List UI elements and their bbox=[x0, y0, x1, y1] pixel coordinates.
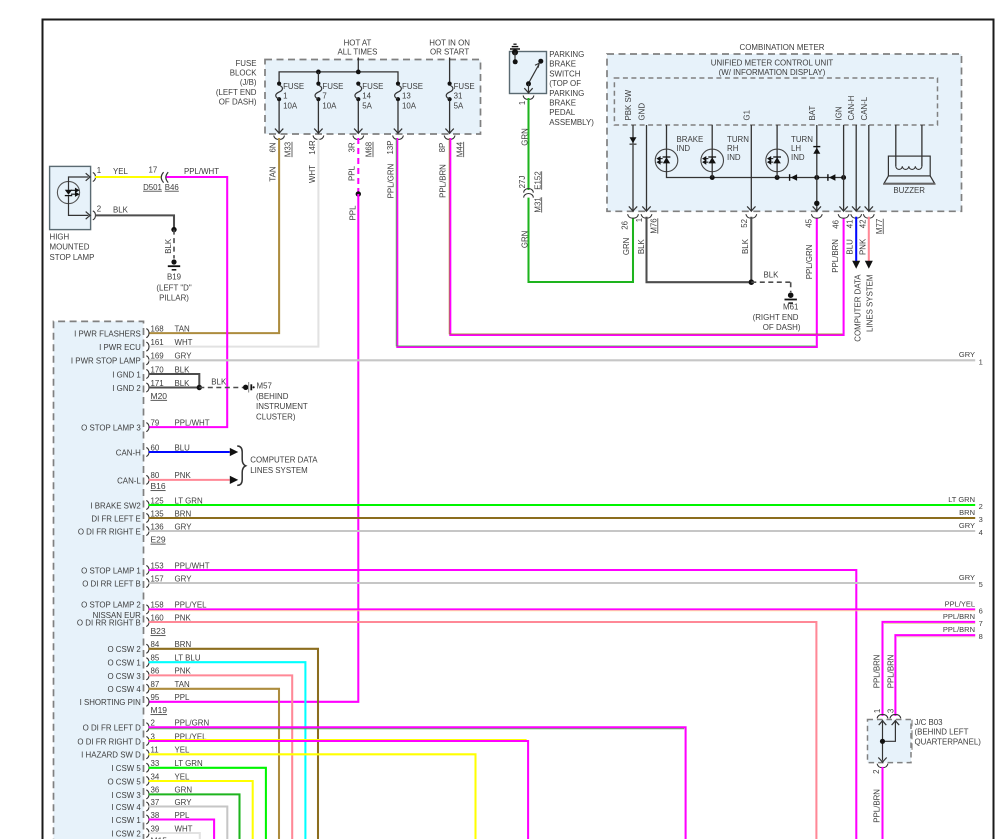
wire PNK CAN-L arrow bbox=[149, 479, 230, 481]
svg-text:SWITCH: SWITCH bbox=[549, 69, 580, 78]
pin 1 connector bbox=[93, 173, 96, 182]
J/C pin 1 connector bbox=[877, 714, 888, 718]
svg-text:1: 1 bbox=[979, 357, 983, 366]
svg-text:2: 2 bbox=[872, 770, 881, 774]
wire PPL 38 down bbox=[149, 820, 215, 839]
svg-text:TAN: TAN bbox=[175, 680, 190, 689]
svg-text:UNIFIED METER CONTROL UNIT: UNIFIED METER CONTROL UNIT bbox=[711, 58, 834, 67]
svg-text:170: 170 bbox=[151, 365, 165, 374]
svg-text:IND: IND bbox=[677, 144, 691, 153]
fuse 31 5A bbox=[448, 82, 452, 86]
svg-text:125: 125 bbox=[151, 496, 165, 505]
switch arm bbox=[529, 65, 539, 83]
indicator LED TURNRHIND bbox=[711, 125, 713, 149]
svg-text:169: 169 bbox=[151, 352, 165, 361]
svg-text:IND: IND bbox=[727, 153, 741, 162]
svg-text:11: 11 bbox=[151, 746, 159, 755]
svg-text:(LEFT END: (LEFT END bbox=[216, 88, 257, 97]
svg-text:PPL/GRN: PPL/GRN bbox=[175, 719, 210, 728]
wire LT BLU 85 down bbox=[149, 662, 306, 839]
svg-text:BRN: BRN bbox=[175, 509, 192, 518]
svg-text:86: 86 bbox=[151, 667, 160, 676]
svg-text:GRY: GRY bbox=[175, 352, 193, 361]
svg-text:BLK: BLK bbox=[175, 365, 191, 374]
svg-text:87: 87 bbox=[151, 680, 160, 689]
wire BLK pin1 to M61 junction bbox=[647, 217, 749, 283]
svg-text:GRN: GRN bbox=[521, 128, 530, 146]
wire BLK pin2 to ground B19 bbox=[95, 215, 174, 229]
wire TAN 87 down bbox=[149, 689, 279, 839]
svg-text:PPL/BRN: PPL/BRN bbox=[872, 789, 881, 823]
svg-text:M20: M20 bbox=[151, 391, 168, 401]
fuse 7 10A bbox=[316, 82, 320, 86]
svg-text:I GND 2: I GND 2 bbox=[112, 384, 141, 393]
fuse 1 10A bbox=[277, 82, 281, 86]
svg-text:ASSEMBLY): ASSEMBLY) bbox=[549, 118, 594, 127]
svg-text:O DI FR LEFT D: O DI FR LEFT D bbox=[83, 724, 141, 733]
svg-text:52: 52 bbox=[740, 219, 749, 228]
svg-text:O STOP LAMP 1: O STOP LAMP 1 bbox=[81, 566, 141, 575]
dashed BLK to ground M61 bbox=[751, 281, 790, 283]
connector pin 37 GRY bbox=[146, 802, 149, 811]
svg-text:DI FR LEFT E: DI FR LEFT E bbox=[91, 514, 140, 523]
svg-text:PPL: PPL bbox=[175, 811, 191, 820]
wire YEL 34 down bbox=[149, 781, 253, 839]
svg-text:8P: 8P bbox=[438, 143, 447, 153]
connector pin 160 PNK bbox=[146, 618, 149, 627]
svg-text:PPL: PPL bbox=[348, 165, 357, 181]
svg-text:ALL TIMES: ALL TIMES bbox=[338, 48, 378, 57]
svg-text:45: 45 bbox=[805, 218, 814, 227]
svg-text:I CSW 2: I CSW 2 bbox=[111, 829, 140, 838]
svg-text:O STOP LAMP 2: O STOP LAMP 2 bbox=[81, 601, 141, 610]
small dashes before J/C text bbox=[911, 720, 913, 727]
svg-text:BRN: BRN bbox=[175, 640, 192, 649]
dashed BLK to M57 bbox=[199, 387, 243, 389]
wire WHT fuse7 to pin161 bbox=[149, 138, 319, 347]
fuse block (J/B) box bbox=[265, 60, 481, 135]
svg-text:1: 1 bbox=[97, 166, 101, 175]
svg-text:TAN: TAN bbox=[175, 324, 190, 333]
wire BLU pin41 computer data bbox=[855, 217, 857, 261]
svg-text:FUSE: FUSE bbox=[235, 59, 256, 68]
connector at fuse block edge bbox=[393, 136, 404, 140]
pin 2 connector bbox=[93, 211, 96, 220]
svg-text:PPL/GRN: PPL/GRN bbox=[386, 163, 395, 198]
wire PNK 86 down bbox=[149, 675, 293, 839]
wire PPL/WHT 153 down at right bbox=[149, 570, 857, 839]
wire PPL/YEL 3 down bbox=[149, 741, 528, 839]
svg-text:O STOP LAMP 3: O STOP LAMP 3 bbox=[81, 424, 141, 433]
wire hot-at-all-times feed bbox=[357, 58, 359, 72]
svg-text:FUSE: FUSE bbox=[454, 82, 475, 91]
wire PPL/BRN fuse31 to meter pin46 bbox=[450, 138, 843, 335]
connector pin 169 GRY bbox=[146, 356, 149, 365]
splice M57 bbox=[243, 385, 248, 390]
svg-text:FUSE: FUSE bbox=[322, 82, 343, 91]
wire fuse supply bus bbox=[279, 72, 398, 84]
connector pin 80 PNK bbox=[146, 475, 149, 484]
J/C internal wiring bbox=[879, 721, 887, 726]
svg-text:PNK: PNK bbox=[175, 613, 192, 622]
svg-text:PPL: PPL bbox=[348, 205, 357, 221]
svg-text:PPL/BRN: PPL/BRN bbox=[872, 654, 881, 688]
svg-text:O DI FR RIGHT D: O DI FR RIGHT D bbox=[77, 737, 141, 746]
svg-text:PARKING: PARKING bbox=[549, 89, 584, 98]
wire PPL/GRN 2 down bbox=[149, 727, 686, 839]
connector pin 158 PPL/YEL bbox=[146, 605, 149, 614]
svg-text:BRAKE: BRAKE bbox=[549, 60, 576, 69]
connector pin 60 BLU bbox=[146, 448, 149, 457]
svg-text:GRY: GRY bbox=[175, 522, 193, 531]
svg-text:LINES SYSTEM: LINES SYSTEM bbox=[250, 466, 307, 475]
svg-text:157: 157 bbox=[151, 574, 164, 583]
J/C B03 box bbox=[868, 720, 912, 763]
junction fuse7 tap bbox=[316, 70, 321, 75]
lamp internal wiring bbox=[69, 177, 89, 190]
meter bottom connector x=856.2 bbox=[852, 206, 860, 211]
connector pin 84 BRN bbox=[146, 644, 149, 653]
svg-text:BLK: BLK bbox=[637, 239, 646, 255]
svg-text:O CSW 2: O CSW 2 bbox=[107, 645, 140, 654]
svg-text:5A: 5A bbox=[454, 101, 464, 110]
wire GRN to meter pin26 bbox=[529, 198, 634, 282]
svg-text:WHT: WHT bbox=[175, 338, 193, 347]
connector pin 3 PPL/YEL bbox=[146, 737, 149, 746]
J/C pin 3 connector bbox=[890, 714, 901, 718]
svg-text:YEL: YEL bbox=[175, 772, 191, 781]
svg-text:PPL/YEL: PPL/YEL bbox=[945, 599, 975, 608]
wire BAT with diode bbox=[816, 125, 818, 211]
wire BLU CAN-H arrow bbox=[149, 451, 230, 453]
svg-text:GRY: GRY bbox=[959, 521, 975, 530]
wire PPL/GRN fuse13 to meter pin45 bbox=[397, 138, 817, 347]
svg-text:PPL/BRN: PPL/BRN bbox=[831, 239, 840, 273]
switch contacts bbox=[514, 52, 516, 61]
wire PPL/BRN J/C pin2 down bbox=[881, 767, 883, 839]
svg-text:CLUSTER): CLUSTER) bbox=[256, 413, 296, 422]
svg-text:M33: M33 bbox=[284, 141, 293, 157]
svg-text:G1: G1 bbox=[742, 110, 751, 121]
svg-text:46: 46 bbox=[831, 219, 840, 228]
indicator LED TURNLHIND bbox=[776, 125, 778, 149]
svg-text:PPL/BRN: PPL/BRN bbox=[887, 654, 896, 688]
svg-text:80: 80 bbox=[151, 471, 160, 480]
meter bottom connector x=816.8 bbox=[813, 206, 821, 211]
svg-text:PEDAL: PEDAL bbox=[549, 108, 575, 117]
wire LT GRN 33 down bbox=[149, 768, 266, 839]
wire PPL fuse14 dashed segment bbox=[357, 138, 359, 194]
meter bottom connector x=751.3 bbox=[747, 206, 755, 211]
svg-text:BLK: BLK bbox=[741, 238, 750, 254]
svg-text:31: 31 bbox=[454, 91, 463, 100]
unified meter control unit inner box bbox=[614, 78, 937, 125]
svg-text:I CSW 4: I CSW 4 bbox=[111, 803, 141, 812]
svg-text:GND: GND bbox=[638, 103, 647, 121]
diode on bus 1 bbox=[789, 174, 791, 181]
svg-text:36: 36 bbox=[151, 786, 160, 795]
connector pin 79 PPL/WHT bbox=[146, 423, 149, 432]
svg-text:6N: 6N bbox=[269, 142, 278, 152]
J/C pin 2 connector bbox=[877, 764, 888, 768]
svg-text:37: 37 bbox=[151, 798, 160, 807]
svg-text:CAN-L: CAN-L bbox=[860, 96, 869, 120]
svg-text:GRN: GRN bbox=[521, 230, 530, 248]
connector pin 87 TAN bbox=[146, 684, 149, 693]
inline connector 27J M31/E152 bbox=[524, 189, 534, 198]
svg-text:PNK: PNK bbox=[175, 471, 192, 480]
svg-text:33: 33 bbox=[151, 759, 160, 768]
svg-text:WHT: WHT bbox=[308, 165, 317, 183]
connector pin 161 WHT bbox=[146, 342, 149, 351]
wire G1 bbox=[750, 125, 752, 211]
dashed BLK to ground bbox=[173, 230, 175, 259]
svg-text:PPL/WHT: PPL/WHT bbox=[184, 167, 219, 176]
svg-text:M57: M57 bbox=[257, 382, 272, 391]
svg-text:E29: E29 bbox=[151, 535, 166, 545]
svg-text:7: 7 bbox=[322, 91, 326, 100]
svg-text:41: 41 bbox=[846, 220, 855, 229]
svg-text:60: 60 bbox=[151, 443, 160, 452]
svg-text:(BEHIND LEFT: (BEHIND LEFT bbox=[915, 728, 969, 737]
wire GRY 37 down bbox=[149, 807, 228, 839]
svg-text:I SHORTING PIN: I SHORTING PIN bbox=[80, 698, 142, 707]
svg-text:PPL/YEL: PPL/YEL bbox=[175, 601, 208, 610]
svg-text:J/C B03: J/C B03 bbox=[915, 718, 944, 727]
svg-text:O DI RR RIGHT B: O DI RR RIGHT B bbox=[77, 618, 141, 627]
svg-text:FUSE: FUSE bbox=[283, 82, 304, 91]
svg-text:INSTRUMENT: INSTRUMENT bbox=[256, 402, 308, 411]
svg-text:(BEHIND: (BEHIND bbox=[256, 392, 289, 401]
svg-text:PBK SW: PBK SW bbox=[624, 89, 633, 120]
wire BLK 170 bbox=[149, 374, 200, 388]
svg-text:LT GRN: LT GRN bbox=[175, 759, 204, 768]
svg-text:GRN: GRN bbox=[622, 237, 631, 255]
parking brake switch box bbox=[510, 52, 547, 94]
connector pin 85 LT BLU bbox=[146, 658, 149, 667]
svg-text:13P: 13P bbox=[386, 140, 395, 154]
svg-text:BRAKE: BRAKE bbox=[549, 99, 576, 108]
wire BLK pin52 down bbox=[750, 217, 752, 283]
buzzer bbox=[895, 125, 897, 166]
svg-text:M31: M31 bbox=[533, 197, 542, 212]
svg-text:PPL/BRN: PPL/BRN bbox=[438, 164, 447, 198]
svg-text:B46: B46 bbox=[165, 183, 180, 192]
svg-text:79: 79 bbox=[151, 418, 160, 427]
svg-text:I BRAKE SW2: I BRAKE SW2 bbox=[90, 501, 140, 510]
connector pin 33 LT GRN bbox=[146, 763, 149, 772]
connector pin 86 PNK bbox=[146, 671, 149, 680]
meter bottom connector x=843.6 bbox=[839, 206, 847, 211]
svg-text:M44: M44 bbox=[455, 141, 464, 157]
wire YEL pin1 to connector 17 bbox=[95, 176, 160, 178]
svg-text:BRN: BRN bbox=[959, 508, 975, 517]
svg-text:D501: D501 bbox=[143, 183, 162, 192]
connector pin 136 GRY bbox=[146, 527, 149, 536]
svg-text:PPL/BRN: PPL/BRN bbox=[943, 612, 975, 621]
svg-text:B19: B19 bbox=[167, 273, 182, 282]
svg-text:LH: LH bbox=[791, 144, 801, 153]
svg-text:26: 26 bbox=[620, 220, 629, 229]
svg-text:5A: 5A bbox=[362, 101, 372, 110]
wire GRY 169 to right edge exit 1 bbox=[149, 359, 976, 361]
svg-text:10A: 10A bbox=[402, 101, 417, 110]
inline connector D501 / B46 bbox=[161, 172, 168, 182]
svg-text:1: 1 bbox=[283, 91, 287, 100]
svg-text:QUARTERPANEL): QUARTERPANEL) bbox=[915, 738, 982, 747]
svg-text:17: 17 bbox=[149, 166, 158, 175]
svg-text:I GND 1: I GND 1 bbox=[112, 370, 141, 379]
svg-text:5: 5 bbox=[979, 580, 983, 589]
svg-text:84: 84 bbox=[151, 640, 160, 649]
svg-text:RH: RH bbox=[727, 144, 739, 153]
connector pin 171 BLK bbox=[146, 383, 149, 392]
svg-text:(W/ INFORMATION DISPLAY): (W/ INFORMATION DISPLAY) bbox=[719, 68, 826, 77]
svg-text:42: 42 bbox=[858, 220, 867, 229]
svg-text:WHT: WHT bbox=[175, 824, 193, 833]
svg-text:160: 160 bbox=[151, 613, 165, 622]
svg-text:COMPUTER DATA: COMPUTER DATA bbox=[853, 274, 862, 342]
svg-text:GRY: GRY bbox=[959, 350, 975, 359]
meter bottom connector x=646.5 bbox=[642, 206, 650, 211]
svg-text:I PWR FLASHERS: I PWR FLASHERS bbox=[74, 330, 141, 339]
wire GRN switch to connector 27J bbox=[527, 98, 529, 190]
svg-text:BLOCK: BLOCK bbox=[230, 69, 257, 78]
svg-text:168: 168 bbox=[151, 324, 165, 333]
svg-text:BLU: BLU bbox=[846, 239, 855, 255]
svg-text:FUSE: FUSE bbox=[362, 82, 383, 91]
indicator LED BRAKEIND bbox=[666, 125, 668, 149]
svg-text:3: 3 bbox=[886, 708, 895, 713]
ground at parking brake switch bbox=[513, 43, 516, 45]
diode on bus 2 bbox=[827, 174, 829, 181]
svg-text:8: 8 bbox=[979, 632, 983, 641]
wire YEL 11 down bbox=[149, 754, 476, 839]
svg-text:OF DASH): OF DASH) bbox=[219, 97, 257, 106]
wire GRN 36 down bbox=[149, 794, 240, 839]
wire CAN-H bbox=[855, 125, 857, 211]
svg-text:B16: B16 bbox=[151, 481, 166, 491]
svg-text:(RIGHT END: (RIGHT END bbox=[753, 313, 799, 322]
svg-text:BLK: BLK bbox=[175, 379, 191, 388]
svg-text:O CSW 5: O CSW 5 bbox=[107, 777, 141, 786]
svg-text:STOP LAMP: STOP LAMP bbox=[50, 253, 95, 262]
svg-text:14R: 14R bbox=[308, 140, 317, 155]
connector pin 170 BLK bbox=[146, 370, 149, 379]
connector at fuse block edge bbox=[444, 136, 455, 140]
connector pin 2 PPL/GRN bbox=[146, 723, 149, 732]
connector pin 153 PPL/WHT bbox=[146, 566, 149, 575]
svg-text:95: 95 bbox=[151, 693, 160, 702]
svg-text:3: 3 bbox=[979, 515, 983, 524]
wire GRY 157 to exit 5 bbox=[149, 582, 976, 584]
splice dot on PPL bbox=[356, 191, 361, 196]
svg-text:2: 2 bbox=[979, 502, 983, 511]
svg-text:BUZZER: BUZZER bbox=[893, 186, 925, 195]
svg-text:LT GRN: LT GRN bbox=[948, 495, 975, 504]
svg-text:7: 7 bbox=[979, 619, 983, 628]
wire PPL/BRN exit 8 to J/C pin3 bbox=[895, 635, 975, 716]
wire CAN-L bbox=[868, 125, 870, 211]
svg-text:TAN: TAN bbox=[269, 166, 278, 181]
junction fuse14 tap bbox=[356, 70, 361, 75]
svg-text:I HAZARD SW D: I HAZARD SW D bbox=[81, 751, 141, 760]
svg-text:OR START: OR START bbox=[430, 48, 469, 57]
svg-text:CAN-H: CAN-H bbox=[847, 95, 856, 120]
svg-text:PILLAR): PILLAR) bbox=[159, 294, 189, 303]
connector pin 135 BRN bbox=[146, 514, 149, 523]
svg-text:1: 1 bbox=[518, 101, 527, 105]
svg-text:2: 2 bbox=[151, 719, 155, 728]
fuse 14 5A bbox=[356, 82, 360, 86]
wire PPL/YEL 158 to exit 6 bbox=[149, 608, 976, 610]
svg-text:27J: 27J bbox=[518, 176, 527, 189]
svg-text:IND: IND bbox=[791, 153, 805, 162]
svg-text:135: 135 bbox=[151, 509, 165, 518]
svg-text:85: 85 bbox=[151, 654, 160, 663]
svg-text:13: 13 bbox=[402, 91, 411, 100]
svg-text:(LEFT "D": (LEFT "D" bbox=[156, 283, 191, 292]
svg-text:M77: M77 bbox=[875, 219, 884, 234]
wire PNK pin42 computer data bbox=[868, 217, 870, 261]
svg-text:GRN: GRN bbox=[175, 786, 193, 795]
svg-text:O CSW 3: O CSW 3 bbox=[107, 672, 141, 681]
connector pin 168 TAN bbox=[146, 329, 149, 338]
svg-text:MOUNTED: MOUNTED bbox=[50, 243, 90, 252]
svg-text:TURN: TURN bbox=[791, 135, 813, 144]
connector pin 95 PPL bbox=[146, 697, 149, 706]
svg-text:34: 34 bbox=[151, 772, 160, 781]
wire BRN 135 to exit 3 bbox=[149, 517, 976, 519]
svg-text:10A: 10A bbox=[322, 101, 337, 110]
svg-text:I PWR STOP LAMP: I PWR STOP LAMP bbox=[71, 357, 141, 366]
svg-text:3R: 3R bbox=[348, 142, 357, 152]
LED lamp symbol bbox=[57, 181, 79, 203]
svg-text:PNK: PNK bbox=[175, 667, 192, 676]
junction dot bbox=[171, 227, 176, 232]
svg-text:BAT: BAT bbox=[808, 106, 817, 121]
svg-text:LT BLU: LT BLU bbox=[175, 654, 201, 663]
svg-text:O CSW 4: O CSW 4 bbox=[107, 685, 141, 694]
svg-text:FUSE: FUSE bbox=[402, 82, 423, 91]
svg-text:HOT AT: HOT AT bbox=[344, 39, 372, 48]
svg-text:39: 39 bbox=[151, 824, 160, 833]
svg-text:BLK: BLK bbox=[764, 271, 780, 280]
wire GND bbox=[646, 125, 648, 211]
ground M61 bbox=[788, 292, 794, 298]
svg-text:YEL: YEL bbox=[175, 746, 191, 755]
svg-text:O DI RR LEFT B: O DI RR LEFT B bbox=[82, 579, 141, 588]
wire PPL to pin95 bbox=[149, 194, 359, 702]
svg-text:BLK: BLK bbox=[113, 205, 129, 214]
svg-text:E152: E152 bbox=[533, 171, 542, 189]
svg-text:CAN-L: CAN-L bbox=[117, 476, 141, 485]
left connector block box bbox=[54, 321, 144, 839]
svg-text:CAN-H: CAN-H bbox=[116, 448, 141, 457]
svg-text:TURN: TURN bbox=[727, 135, 749, 144]
fuse 13 10A bbox=[396, 82, 400, 86]
connector at fuse block edge bbox=[353, 136, 364, 140]
wire BLK 171 bbox=[149, 386, 200, 388]
svg-text:38: 38 bbox=[151, 811, 160, 820]
svg-text:YEL: YEL bbox=[113, 167, 129, 176]
svg-text:PPL/WHT: PPL/WHT bbox=[175, 561, 210, 570]
svg-text:COMPUTER DATA: COMPUTER DATA bbox=[250, 455, 318, 464]
svg-text:PPL/BRN: PPL/BRN bbox=[943, 625, 975, 634]
svg-text:10A: 10A bbox=[283, 101, 298, 110]
svg-text:158: 158 bbox=[151, 601, 165, 610]
wire TAN fuse1 to pin168 bbox=[149, 138, 280, 333]
